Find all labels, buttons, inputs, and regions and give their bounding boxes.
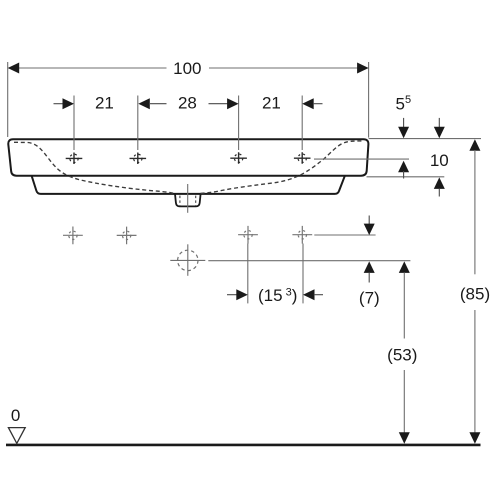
svg-text:55: 55 [396, 94, 412, 114]
tap hole 1 extension line [73, 96, 75, 151]
dim (53) bottom arrowhead [399, 432, 410, 444]
zero level triangle marker [8, 428, 25, 444]
dim (53) upper line [403, 272, 405, 338]
trap level reference line [208, 260, 410, 262]
tap hole 4 extension line [301, 96, 303, 151]
dim 21 right outside arrow [302, 98, 314, 109]
washbasin apron/skirt outline [32, 176, 345, 194]
dim (85) top arrowhead [469, 139, 480, 151]
svg-text:21: 21 [95, 94, 114, 113]
dim 100 left extension line [7, 62, 9, 137]
dim 10 upper arrow [438, 118, 440, 128]
dim (15.3) right outside arrow [303, 289, 315, 300]
dim (53) lower line [403, 370, 405, 433]
dim (15.3) left outside arrow [227, 294, 237, 296]
floor line [6, 444, 481, 447]
dim 28 line [149, 103, 228, 105]
tap hole 1 cross [66, 153, 83, 165]
trap centerline horizontal [170, 259, 205, 261]
dim 10 lower arrow [434, 177, 445, 189]
dim 5.5 lower arrow [398, 161, 409, 173]
svg-text:28: 28 [178, 93, 197, 112]
dim (7) lower arrow [364, 261, 375, 273]
top level reference line [369, 138, 481, 140]
trap centerline vertical [187, 244, 189, 275]
tap hole 4 cross [294, 152, 311, 164]
dim 28 left arrowhead [138, 98, 150, 109]
hidden bowl contour dashed right [201, 141, 363, 194]
tap hole 3 extension line [238, 96, 240, 151]
tap hole 3 cross [230, 152, 247, 164]
dim 100 right arrowhead [357, 63, 369, 74]
dim 100 right extension line [368, 62, 370, 138]
dim (85) lower line [474, 310, 476, 433]
fixing hole 3 cross [238, 226, 258, 244]
washbasin body front outline [8, 139, 368, 175]
dim 100 line [19, 67, 358, 69]
svg-text:(53): (53) [387, 345, 417, 364]
fixing hole 4 cross [292, 226, 312, 244]
dim (85) upper line [474, 150, 476, 274]
dim 100 left arrowhead [8, 63, 20, 74]
svg-text:100: 100 [173, 59, 201, 78]
dim (15.3) left extension line [247, 244, 249, 304]
dim (7) upper arrow [368, 216, 370, 225]
drain hidden dashed lines [180, 196, 196, 206]
hidden bowl contour dashed left [14, 142, 176, 193]
svg-text:21: 21 [262, 93, 281, 112]
svg-text:(85): (85) [460, 285, 490, 304]
svg-text:(15 3): (15 3) [258, 286, 297, 305]
fixing hole 2 cross [117, 227, 137, 245]
tap hole level reference line [314, 158, 409, 160]
dim (85) bottom arrowhead [469, 432, 480, 444]
body bottom level reference line [367, 176, 445, 178]
svg-text:0: 0 [11, 406, 20, 425]
tap hole 2 cross [130, 153, 147, 165]
dim 5.5 upper arrow [403, 118, 405, 128]
dim (53) top arrowhead [399, 261, 410, 273]
fixing hole 1 cross [63, 227, 83, 245]
tap hole 2 extension line [137, 96, 139, 151]
drain outlet box [175, 194, 201, 207]
drain vertical centerline [187, 184, 189, 213]
svg-text:(7): (7) [359, 288, 380, 307]
lower holes level line [314, 234, 375, 236]
dim 21 left outside arrow [54, 103, 64, 105]
svg-text:10: 10 [430, 151, 449, 170]
dim 28 right arrowhead [227, 98, 239, 109]
trap hidden circle [178, 250, 198, 270]
dim (15.3) right extension line [302, 244, 304, 304]
